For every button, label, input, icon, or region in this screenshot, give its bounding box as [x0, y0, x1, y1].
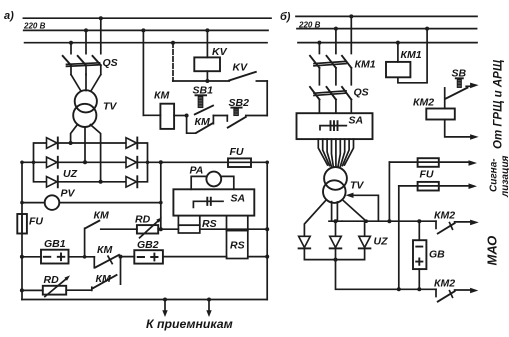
- bus line L3 (a): [25, 42, 267, 44]
- svg-text:PV: PV: [61, 188, 76, 200]
- svg-text:QS: QS: [354, 87, 369, 99]
- diode VD5: [126, 157, 137, 168]
- resistor RD (charge row): [137, 225, 158, 233]
- bus line L3 (b): [298, 42, 477, 44]
- svg-text:МАО: МАО: [485, 236, 500, 266]
- diode VD2: [47, 157, 58, 168]
- node: bus junction dots (a): [99, 16, 103, 20]
- node: UZ rail dots: [32, 161, 36, 165]
- wire: UZ middle row / plus wire to FU: [22, 161, 267, 163]
- svg-text:КМ: КМ: [97, 244, 112, 256]
- node: GB2 row joint: [119, 255, 123, 259]
- contact KM (aux, parallel SB1): [187, 116, 214, 134]
- wire: diode cathode rail: [304, 248, 364, 259]
- svg-text:FU: FU: [230, 146, 244, 158]
- wire: control right vertical: [266, 81, 268, 116]
- diode VD6: [126, 176, 137, 187]
- rectifier UZ (a) bridge rails: [34, 143, 148, 182]
- relay coil KM2: [426, 109, 455, 120]
- bus line L1 (a): [23, 17, 271, 19]
- svg-text:SB1: SB1: [193, 85, 214, 97]
- contactor coil KM: [142, 30, 144, 115]
- resistor RS (lower): [227, 216, 248, 259]
- node: secondary junction dots: [69, 141, 73, 145]
- svg-text:КМ2: КМ2: [434, 210, 455, 222]
- bus line L2 (b): [297, 28, 477, 30]
- battery GB (b): [418, 221, 420, 240]
- svg-text:SA: SA: [349, 115, 364, 127]
- svg-text:б): б): [280, 11, 291, 23]
- svg-text:К приемникам: К приемникам: [146, 317, 233, 331]
- wire: control row: [213, 115, 267, 117]
- svg-text:QS: QS: [103, 57, 118, 69]
- button SB1: [195, 95, 213, 114]
- svg-text:Сигна-: Сигна-: [489, 158, 500, 192]
- diode VD1: [47, 138, 58, 149]
- svg-text:KV: KV: [212, 46, 228, 58]
- svg-text:КМ2: КМ2: [413, 97, 434, 109]
- svg-text:КМ2: КМ2: [434, 278, 455, 290]
- contact KM2 (upper, to MAO): [436, 220, 479, 234]
- contact KV: [173, 80, 267, 82]
- battery GB2: [121, 256, 267, 258]
- node: SB1 branch dot: [185, 114, 189, 118]
- svg-text:GB2: GB2: [137, 239, 159, 251]
- fuse FU (b, lower) + wire: [399, 185, 469, 187]
- wire: bottom consumer rail (a): [22, 299, 267, 301]
- svg-text:КМ: КМ: [96, 273, 111, 285]
- fuse FU (a, left): [17, 214, 27, 234]
- wire: consumer arrows: [165, 300, 209, 311]
- switch QS (3-pole): [63, 18, 101, 74]
- ammeter PA: [206, 172, 221, 187]
- wire: TV secondary leads: [71, 125, 101, 182]
- svg-text:UZ: UZ: [374, 236, 389, 248]
- resistor RD (bottom): [22, 289, 43, 291]
- svg-text:КМ: КМ: [195, 116, 210, 128]
- voltmeter PV: [45, 195, 60, 210]
- svg-text:GB: GB: [429, 249, 445, 261]
- bus line L2 (a): [24, 29, 268, 31]
- wire: left minus vertical (a): [21, 162, 23, 299]
- diode VD4: [126, 138, 137, 149]
- svg-text:RD: RD: [44, 274, 60, 286]
- wire: TV tap with arrow: [350, 195, 378, 221]
- fuse FU (b, upper) + wire: [389, 161, 468, 163]
- svg-text:UZ: UZ: [63, 168, 78, 180]
- transformer TV (b): [324, 167, 347, 190]
- svg-text:КМ: КМ: [94, 210, 109, 222]
- svg-text:лизация: лизация: [500, 155, 509, 198]
- wire: plus collector row (b): [342, 220, 436, 222]
- button SB (b): [445, 78, 479, 108]
- diode VD9: [359, 236, 371, 248]
- wire: TV secondary leads (b): [304, 201, 325, 237]
- wire: right diode drop: [364, 221, 366, 236]
- node: right rail joints: [265, 161, 269, 165]
- relay coil KV: [206, 30, 208, 57]
- node: bus dots (b): [349, 14, 353, 18]
- button SB2: [227, 108, 246, 128]
- svg-text:220 В: 220 В: [23, 22, 46, 31]
- contact KM2 (lower, to MAO): [436, 288, 478, 302]
- wire: SA multi-tap fan to TV: [318, 139, 353, 167]
- svg-text:KV: KV: [233, 62, 249, 74]
- svg-text:RD: RD: [135, 214, 151, 226]
- wire: right vertical rail (a): [266, 162, 268, 299]
- SA symbol (b): [320, 126, 346, 130]
- wire: signal feeds verticals: [389, 162, 398, 289]
- svg-text:RS: RS: [230, 240, 245, 252]
- switch SA (b) box: [297, 113, 373, 139]
- svg-text:SB2: SB2: [229, 97, 250, 109]
- svg-text:PA: PA: [190, 165, 204, 177]
- contactor coil KM1: [397, 43, 399, 62]
- svg-text:FU: FU: [29, 216, 43, 228]
- wire: charge row to RS: [158, 228, 267, 230]
- wire: minus drop and bottom row (b): [336, 260, 437, 290]
- node: KV row joint: [205, 79, 209, 83]
- fuse FU (a, plus wire): [228, 158, 251, 167]
- svg-text:RS: RS: [202, 218, 217, 230]
- switch QS (b): [310, 87, 351, 113]
- contact KM (charge row, top): [85, 221, 137, 257]
- wire: plus branch down to charge row: [160, 162, 162, 229]
- SA contact symbol: [193, 201, 223, 207]
- battery GB1: [22, 256, 94, 258]
- svg-text:TV: TV: [350, 180, 364, 192]
- svg-text:КМ: КМ: [154, 90, 169, 102]
- svg-text:FU: FU: [420, 169, 434, 181]
- svg-text:TV: TV: [103, 101, 117, 113]
- resistor RS (upper): [178, 216, 199, 233]
- wire: PV connections: [22, 202, 161, 204]
- bus line L1 (b): [296, 15, 477, 17]
- diode VD7: [299, 236, 311, 248]
- wire: QS to TV primary: [71, 75, 101, 91]
- svg-text:От ГРЩ и АРЩ: От ГРЩ и АРЩ: [493, 59, 505, 149]
- svg-text:SB: SB: [452, 68, 467, 80]
- contact KM (between GB1 and GB2): [94, 255, 119, 268]
- switch SA (a) box: [173, 189, 254, 215]
- contact KM1 (3-pole main): [310, 16, 351, 84]
- svg-text:а): а): [4, 10, 14, 22]
- transformer TV (a): [75, 90, 97, 112]
- wire: dashed drop from L3 to KV contact row: [172, 43, 174, 81]
- svg-text:GB1: GB1: [44, 238, 66, 250]
- svg-text:SA: SA: [231, 193, 246, 205]
- svg-text:КМ1: КМ1: [401, 49, 422, 61]
- diode VD8: [330, 236, 342, 248]
- svg-text:КМ1: КМ1: [355, 59, 376, 71]
- diode VD3: [47, 176, 58, 187]
- contact KM (bottom): [66, 257, 120, 291]
